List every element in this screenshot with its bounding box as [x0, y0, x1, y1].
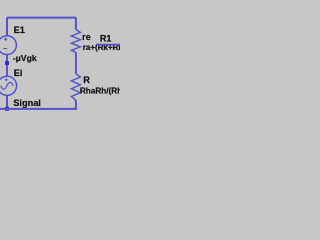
sine squiggle inside Ei	[1, 82, 14, 89]
svg-text:-µVgk: -µVgk	[13, 53, 37, 63]
wire: vertical lead E1 bottom to Ei top	[6, 55, 8, 77]
node junction dot on Signal net	[5, 107, 9, 111]
svg-text:re: re	[82, 32, 91, 42]
wire: left vertical lead from top wire to E1	[6, 18, 8, 36]
wire: bottom horizontal Signal net	[0, 108, 76, 110]
signal source Ei (AC sine source)	[0, 76, 17, 95]
svg-text:R1: R1	[100, 34, 112, 44]
wire: top horizontal net from E1 to resistor branch	[7, 17, 76, 19]
minus mark inside E1	[3, 48, 7, 50]
svg-text:E1: E1	[14, 25, 25, 35]
svg-text:Signal: Signal	[13, 98, 41, 108]
svg-text:Ei: Ei	[14, 68, 23, 78]
wire: vertical lead from resistor R to bottom net	[75, 100, 77, 110]
wire: vertical between resistor re and resistor R	[75, 52, 77, 74]
plus mark inside Ei	[5, 78, 8, 81]
wire: vertical lead Ei bottom to bottom net	[6, 95, 8, 110]
svg-text:RhaRh/(Rh: RhaRh/(Rh	[80, 87, 120, 96]
resistor re (zigzag body)	[71, 30, 80, 53]
node junction dot between E1 and Ei	[5, 61, 9, 65]
voltage source E1 (dependent source -uVgk)	[0, 36, 16, 55]
wire: lead of R1 running off right edge	[97, 44, 121, 46]
plus mark inside E1	[4, 38, 7, 41]
background	[0, 0, 120, 120]
svg-text:R: R	[83, 75, 90, 85]
resistor R (zigzag body)	[71, 74, 80, 101]
wire: right vertical lead from top wire to resistor re	[75, 18, 77, 30]
